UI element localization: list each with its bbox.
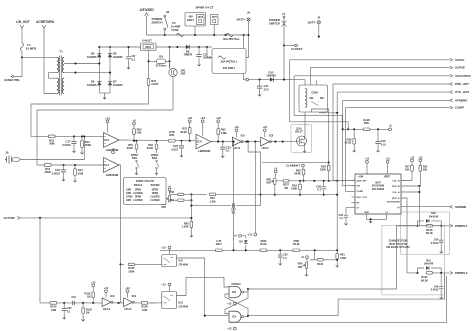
svg-text:+12: +12 xyxy=(263,125,268,129)
op-amp IC4C xyxy=(196,134,211,149)
resistor R26 150K xyxy=(328,162,330,165)
svg-text:42R: 42R xyxy=(181,72,186,76)
wire VR1 wiper xyxy=(170,199,178,201)
svg-text:12FUSED: 12FUSED xyxy=(139,8,154,12)
power VIN circle xyxy=(366,163,368,174)
svg-text:OPEN: OPEN xyxy=(152,193,159,195)
relay coil xyxy=(305,89,307,108)
resistor R52 301K switch leg 2 xyxy=(155,140,157,142)
svg-text:+5: +5 xyxy=(388,124,392,128)
svg-text:1N4148: 1N4148 xyxy=(429,214,439,218)
zener D8 xyxy=(148,51,150,79)
svg-text:JP77: JP77 xyxy=(212,17,218,19)
wire ref net xyxy=(343,128,389,130)
svg-text:1N4935: 1N4935 xyxy=(87,55,97,59)
wire left bus A down xyxy=(30,104,32,136)
svg-text:43.2K: 43.2K xyxy=(344,141,351,145)
wire op-amp3 output xyxy=(211,141,234,143)
svg-text:1M: 1M xyxy=(86,312,89,315)
arrow COMP xyxy=(450,106,453,109)
power op-amp2 xyxy=(112,151,115,154)
svg-text:C3: C3 xyxy=(203,52,207,56)
power inverter2 xyxy=(263,129,266,132)
svg-text:SW1A1: SW1A1 xyxy=(134,184,143,187)
wire inv3 to inv4 xyxy=(112,302,124,304)
svg-text:EMT_A: EMT_A xyxy=(392,197,400,200)
arrow AC neutral xyxy=(11,75,14,78)
wire battery feed xyxy=(249,79,306,81)
svg-text:0.0012: 0.0012 xyxy=(431,289,439,292)
svg-text:100K: 100K xyxy=(128,269,134,273)
svg-text:+12: +12 xyxy=(161,245,166,249)
IC10 CD4046 box A xyxy=(162,255,177,267)
wire inverter1 to inverter2 xyxy=(242,141,261,143)
svg-text:SDWNB: SDWNB xyxy=(455,205,466,209)
diode D4 xyxy=(97,54,101,58)
switch J8 xyxy=(164,15,166,17)
power inverter1 xyxy=(235,129,238,132)
wire XFRNRG down xyxy=(342,100,344,129)
junction CLKFILT tap xyxy=(283,44,285,46)
svg-text:IC5: IC5 xyxy=(232,290,237,294)
wire bottom long net xyxy=(230,276,447,322)
svg-text:HC14: HC14 xyxy=(125,307,132,311)
resistor R27 20K xyxy=(411,159,414,162)
wire coil to feed xyxy=(304,80,306,85)
svg-text:D9: D9 xyxy=(239,240,243,244)
potentiometer VR4 50K xyxy=(305,262,307,268)
junction fuse output xyxy=(21,56,23,58)
ground C48 xyxy=(376,149,379,153)
svg-text:22.0: 22.0 xyxy=(264,87,270,91)
wire R105 to IC10 xyxy=(135,263,162,265)
svg-text:F2: F2 xyxy=(172,21,176,25)
svg-text:+12: +12 xyxy=(418,156,423,159)
svg-text:1N4935: 1N4935 xyxy=(87,83,97,87)
svg-text:+5: +5 xyxy=(132,118,136,122)
capacitor C49 timing xyxy=(346,208,352,215)
fuse F1 xyxy=(21,43,24,52)
ground C23 xyxy=(221,154,224,158)
svg-text:NO: NO xyxy=(309,96,313,100)
svg-text:OPEN: OPEN xyxy=(152,190,159,192)
svg-text:0.0022: 0.0022 xyxy=(62,143,71,147)
transformer T1 xyxy=(57,57,59,72)
svg-text:IC9: IC9 xyxy=(132,294,137,298)
wire J7 down xyxy=(283,31,285,80)
svg-text:INV: INV xyxy=(357,185,361,187)
arrow PRE_HOT xyxy=(450,83,453,86)
svg-text:C21: C21 xyxy=(264,84,269,88)
wire mid rail 180 xyxy=(276,180,337,182)
wire JR1 source down xyxy=(172,77,174,110)
wire mid rail 195 xyxy=(260,194,337,196)
wire to R105 xyxy=(121,263,125,265)
svg-text:IC4: IC4 xyxy=(104,163,109,167)
resistor R59 330K xyxy=(178,199,184,201)
wire ACRETURN to primary bottom xyxy=(44,28,57,93)
ground C20 xyxy=(180,154,183,158)
resistor R57 49.9K pullup xyxy=(188,120,191,123)
svg-text:+5: +5 xyxy=(168,184,172,188)
wire UTIL_HOT long bus down xyxy=(336,92,338,181)
potentiometer VR2 50K xyxy=(274,178,276,184)
svg-text:33TVdns: 33TVdns xyxy=(156,64,167,68)
resistor R13 20M xyxy=(48,135,55,138)
svg-text:5.8M: 5.8M xyxy=(221,131,227,135)
svg-text:+12: +12 xyxy=(161,282,166,286)
svg-text:COMP: COMP xyxy=(357,191,364,193)
svg-text:HC14: HC14 xyxy=(262,146,269,150)
ground R61b xyxy=(336,264,339,268)
svg-text:OPEN: OPEN xyxy=(135,197,142,199)
wire VR1 net down xyxy=(190,194,192,221)
resistor R50 10K pullup xyxy=(133,122,136,125)
wire bus x337 down xyxy=(336,181,338,251)
resistor R2A 100K xyxy=(299,180,301,182)
wire 400-only box to battery rail xyxy=(246,35,249,58)
wire VR2 bottom xyxy=(274,184,276,194)
svg-text:49.9K: 49.9K xyxy=(180,130,187,134)
svg-text:IC4: IC4 xyxy=(104,138,109,142)
ground C33 xyxy=(279,262,282,266)
wire 12V rail xyxy=(165,34,249,36)
svg-text:NC: NC xyxy=(320,96,324,100)
arrow PWR PL2 xyxy=(450,271,453,274)
capacitor C18 xyxy=(62,164,64,166)
svg-text:0.0022: 0.0022 xyxy=(52,171,61,175)
svg-text:CLOSED: CLOSED xyxy=(150,197,160,199)
wire signal COMP xyxy=(346,107,450,109)
resistor R25 604K xyxy=(302,169,305,175)
svg-text:R58: R58 xyxy=(169,191,174,194)
resistor R56 174K xyxy=(168,140,175,143)
wire mid net to R26 xyxy=(262,161,329,163)
svg-text:LM2904M: LM2904M xyxy=(198,149,211,153)
svg-text:SWITCH: SWITCH xyxy=(269,21,280,25)
wire bridge bottom xyxy=(99,92,110,94)
svg-text:50K: 50K xyxy=(298,265,303,269)
wire BATT- down xyxy=(318,24,320,36)
svg-text:CLOSED: CLOSED xyxy=(133,193,143,195)
power IC10A xyxy=(168,246,171,249)
wire op-amp2 output down xyxy=(119,165,121,264)
wire sense rail 2 xyxy=(37,164,104,166)
op-amp IC4B xyxy=(104,158,120,173)
inverter IC9C xyxy=(102,298,111,307)
resistor R61 1.5M xyxy=(209,193,215,196)
power +12 op-amp3 xyxy=(201,120,204,123)
diode D9 with +5 xyxy=(239,234,242,237)
switch SW1A xyxy=(136,160,138,162)
svg-text:174K: 174K xyxy=(168,130,175,134)
box note inner xyxy=(401,212,450,254)
capacitor C27 0.1 xyxy=(233,203,235,207)
svg-text:GND: GND xyxy=(364,212,369,214)
arrow XCPAE xyxy=(450,66,453,69)
ground U2 xyxy=(367,214,387,219)
svg-text:1N4936: 1N4936 xyxy=(266,74,276,78)
wire relay top stub xyxy=(316,81,318,86)
svg-text:+UIN: +UIN xyxy=(358,177,364,179)
svg-text:20K: 20K xyxy=(405,169,410,172)
resistor R102 1M xyxy=(82,303,84,308)
svg-text:W1SW2: W1SW2 xyxy=(150,184,160,187)
wire gate2 output xyxy=(248,315,338,317)
diode D12 xyxy=(270,77,274,81)
svg-text:68.1K: 68.1K xyxy=(426,231,433,235)
svg-text:OPEN: OPEN xyxy=(135,190,142,192)
wire signal PRE_HOT xyxy=(333,83,450,85)
svg-text:PWR\PL1: PWR\PL1 xyxy=(455,224,468,228)
ground C50 xyxy=(63,316,66,320)
svg-text:C20: C20 xyxy=(173,144,178,148)
svg-text:CLKFILT: CLKFILT xyxy=(291,47,303,51)
svg-text:BATT+: BATT+ xyxy=(237,17,246,21)
svg-text:CLOSED: CLOSED xyxy=(133,200,143,202)
wire signal XFRNRG xyxy=(343,99,450,101)
wire lower rail xyxy=(160,249,337,251)
ground bridge xyxy=(103,96,106,100)
svg-text:CD4011: CD4011 xyxy=(231,282,241,286)
svg-text:ON BACK UPS 250: ON BACK UPS 250 xyxy=(386,245,410,249)
wire riser to PL2 xyxy=(401,198,407,273)
connector JP77 xyxy=(211,15,219,25)
capacitor C8 xyxy=(128,47,130,56)
fuse F3 30A pigtail xyxy=(226,34,233,37)
resistor R12 250K xyxy=(81,135,83,137)
resistor R14 20M xyxy=(74,164,76,166)
svg-text:20M: 20M xyxy=(49,142,55,146)
svg-text:HC14: HC14 xyxy=(103,307,110,311)
svg-text:D8: D8 xyxy=(159,55,163,59)
svg-text:0.1: 0.1 xyxy=(317,188,321,192)
resistor R58 330K xyxy=(178,193,184,195)
wire fuse to node xyxy=(21,51,23,57)
svg-text:2.67K: 2.67K xyxy=(151,82,158,86)
diode D6 xyxy=(97,82,101,86)
svg-text:0.1: 0.1 xyxy=(132,57,136,61)
arrow PWR PL1 xyxy=(450,224,453,227)
svg-text:SWITCH: SWITCH xyxy=(151,20,162,24)
svg-text:T1: T1 xyxy=(59,50,63,54)
svg-text:17WN: 17WN xyxy=(126,197,133,199)
svg-text:COM: COM xyxy=(311,91,318,95)
svg-text:XFRNRG: XFRNRG xyxy=(455,98,468,102)
svg-text:1N4148: 1N4148 xyxy=(424,262,434,266)
ground C21 xyxy=(258,93,261,97)
svg-text:+12: +12 xyxy=(248,232,253,236)
wire D41 branch xyxy=(418,268,425,273)
ground VR4 xyxy=(305,273,308,277)
diode D6 timer xyxy=(186,45,190,49)
svg-text:0.1: 0.1 xyxy=(226,149,230,153)
svg-text:IC8: IC8 xyxy=(179,301,184,305)
resistor R29 49.9K xyxy=(363,128,370,131)
svg-text:+12: +12 xyxy=(125,286,130,290)
capacitor C20 xyxy=(180,140,182,142)
svg-text:50K: 50K xyxy=(161,205,166,209)
shutdown line SDWNB xyxy=(401,206,450,208)
terminal CLKFILT xyxy=(295,44,298,47)
wire gate2 to PL2 xyxy=(338,273,445,316)
svg-text:+12: +12 xyxy=(216,116,221,120)
resistor R104 10M xyxy=(50,302,57,305)
svg-text:ACOUTRUI: ACOUTRUI xyxy=(455,74,471,78)
inverter IC9A xyxy=(232,137,241,146)
power +12 op-amp1 xyxy=(106,120,109,123)
svg-text:LM2904M: LM2904M xyxy=(106,173,119,177)
relay contact xyxy=(311,102,319,106)
wire PL2 input xyxy=(407,272,418,274)
junction battery rail xyxy=(243,34,245,36)
wire battery rail down xyxy=(243,35,245,80)
svg-text:10K: 10K xyxy=(137,131,142,135)
capacitor C26 0.1 xyxy=(323,180,325,182)
svg-text:50K: 50K xyxy=(266,181,271,185)
svg-text:C17: C17 xyxy=(66,139,71,143)
wire relay pin to mid net xyxy=(312,109,329,162)
svg-text:XCPAL: XCPAL xyxy=(455,58,465,62)
svg-text:20M: 20M xyxy=(78,171,84,175)
svg-text:0.1: 0.1 xyxy=(232,211,236,215)
svg-text:0.0012: 0.0012 xyxy=(431,242,439,245)
resistor R26b 20K xyxy=(419,159,422,162)
wire secondary tap A to bridge xyxy=(64,63,99,65)
svg-text:250K: 250K xyxy=(44,170,51,174)
svg-text:U4/U17: U4/U17 xyxy=(142,39,152,43)
wire osc feedback riser xyxy=(248,142,260,195)
svg-text:ACTRIP: ACTRIP xyxy=(3,216,14,220)
svg-text:PRE_HOT: PRE_HOT xyxy=(455,82,469,86)
resistor R62 5.8M pullup xyxy=(217,120,220,123)
svg-text:1.5M: 1.5M xyxy=(210,199,216,203)
svg-text:604K: 604K xyxy=(294,172,300,176)
wire source xyxy=(304,146,306,149)
capacitor C21 xyxy=(259,80,261,86)
svg-text:IC9: IC9 xyxy=(269,133,274,137)
svg-text:1WN: 1WN xyxy=(126,190,131,192)
power +5 ref xyxy=(389,128,392,131)
transistor Q1A xyxy=(291,125,312,153)
resistor R127 1M xyxy=(283,180,289,183)
svg-text:1N4935: 1N4935 xyxy=(113,83,123,87)
svg-text:+12: +12 xyxy=(187,116,192,120)
resistor R60 1.02K xyxy=(190,221,193,227)
arrow UTIL_HOT xyxy=(450,91,453,94)
switch J7 xyxy=(283,16,285,18)
IC10 CD4046 box B xyxy=(162,292,177,309)
ground R12 xyxy=(80,151,83,155)
wire gate xyxy=(291,141,299,143)
power +5 VR1 xyxy=(168,188,171,191)
svg-text:COL_A: COL_A xyxy=(392,191,400,194)
svg-text:J7: J7 xyxy=(282,12,286,16)
arrow XCPAL xyxy=(450,58,453,61)
wire D40 branch xyxy=(418,221,425,226)
svg-text:C18: C18 xyxy=(55,168,60,172)
svg-text:ACIN_INV: ACIN_INV xyxy=(357,179,368,182)
svg-text:10M: 10M xyxy=(51,308,56,312)
resistor R119 475K xyxy=(293,249,300,252)
svg-text:1N4935: 1N4935 xyxy=(113,55,123,59)
junction J7/feed xyxy=(283,79,285,81)
ground R14 xyxy=(73,179,76,183)
wire COL_A to riser xyxy=(401,191,419,193)
IC U2 SG3524 xyxy=(355,174,401,214)
svg-text:+12: +12 xyxy=(410,156,415,159)
wire signal UTIL_HOT xyxy=(337,91,450,93)
ground C8 xyxy=(127,66,130,70)
ground Q1 source xyxy=(303,149,306,153)
wire DC rail to U4 xyxy=(99,46,140,48)
svg-text:VREF: VREF xyxy=(384,177,391,179)
wire primary tap loop xyxy=(49,73,57,79)
svg-text:30A PIGTALL: 30A PIGTALL xyxy=(223,37,240,41)
long bus x255 to +12 xyxy=(254,141,256,143)
svg-text:CD4046: CD4046 xyxy=(179,262,189,266)
svg-text:+12: +12 xyxy=(227,326,232,330)
ground C3 xyxy=(197,63,200,67)
wire drain xyxy=(304,125,307,137)
svg-text:ACRETURN: ACRETURN xyxy=(36,20,54,24)
resistor R106 10M xyxy=(141,302,147,305)
svg-text:J6: J6 xyxy=(5,151,9,155)
wire op-amp1 output rail xyxy=(119,139,196,142)
svg-text:+12: +12 xyxy=(385,158,390,161)
svg-text:HC14: HC14 xyxy=(233,146,240,150)
svg-text:10 AMP: 10 AMP xyxy=(171,24,181,28)
svg-text:C51: C51 xyxy=(71,296,76,299)
wire PL1 input xyxy=(397,225,418,227)
svg-text:+12: +12 xyxy=(105,116,110,120)
resistor R61b 470K xyxy=(336,250,338,253)
resistor R21 2.67K xyxy=(147,79,150,86)
wire J6 riser xyxy=(83,136,85,159)
wire VR1 top net xyxy=(170,193,185,195)
svg-text:30A PIGTALL: 30A PIGTALL xyxy=(221,59,238,63)
wire COMP down to U2 xyxy=(346,108,352,192)
resistor R137 68.3K xyxy=(426,272,432,274)
svg-text:100K: 100K xyxy=(291,187,297,191)
svg-text:CLKINHBT: CLKINHBT xyxy=(286,163,300,167)
svg-text:CHANGE R13B: CHANGE R13B xyxy=(389,238,408,242)
svg-text:FUSE: FUSE xyxy=(171,28,178,32)
svg-text:350-3S/HB: 350-3S/HB xyxy=(372,188,384,191)
svg-text:+Q: +Q xyxy=(397,207,400,209)
ground SW1B xyxy=(155,171,158,175)
svg-text:49.9K: 49.9K xyxy=(363,118,370,122)
nand gate IC5B xyxy=(229,311,241,322)
ground R102 xyxy=(82,318,85,322)
wire bottom rail xyxy=(40,302,102,304)
wire signal XCPAL xyxy=(290,59,450,61)
resistor R10 250K xyxy=(44,164,51,167)
wire to left bus 2 xyxy=(37,109,173,111)
svg-text:CLOSED: CLOSED xyxy=(150,200,160,202)
capacitor C50 xyxy=(63,303,65,308)
wire PRE_HOT down xyxy=(332,84,334,181)
svg-text:COL_B: COL_B xyxy=(392,180,400,182)
wire R21 to left bus xyxy=(31,85,149,104)
svg-text:SHUTDOWN: SHUTDOWN xyxy=(387,202,400,204)
svg-text:OSC_OUT: OSC_OUT xyxy=(357,197,368,199)
switch SW1B xyxy=(156,160,158,162)
resistor R136 68.1K xyxy=(426,225,432,227)
resistor R117 4.7K xyxy=(215,249,222,252)
wire ACTRIP xyxy=(20,217,191,219)
wire gate1 output to PL1 xyxy=(248,288,397,290)
